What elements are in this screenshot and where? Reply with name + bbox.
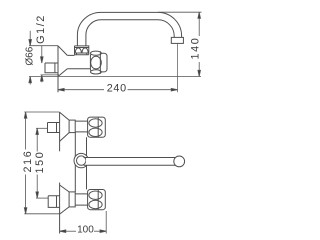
dimension Ø66: [29, 31, 58, 85]
spout end cap (plan): [174, 156, 185, 167]
nipple 2 (plan): [48, 196, 59, 208]
knob 2 (plan): [88, 190, 106, 210]
spout swivel rings (plan): [74, 153, 88, 167]
dimension 140: [158, 12, 202, 76]
dimension G1/2: [41, 46, 60, 82]
body tube between valves (plan): [75, 133, 86, 192]
dimension 100: [60, 211, 107, 234]
connector 1 (plan): [75, 121, 87, 132]
flange 1 cone (plan): [60, 112, 70, 141]
G1/2 wall nipple (side view): [45, 63, 58, 73]
spout union nut (side view): [75, 46, 89, 55]
nipple 1 (plan): [48, 123, 60, 133]
wall line (plan): [59, 112, 61, 234]
bonnet 2 (plan): [69, 192, 75, 207]
connector 2 (plan): [75, 194, 87, 205]
svg-text:240: 240: [107, 83, 127, 95]
svg-text:100: 100: [77, 224, 94, 235]
dimension 216: [24, 112, 59, 214]
svg-text:150: 150: [34, 151, 46, 174]
dimension 150: [36, 128, 49, 198]
body barrel (side view): [67, 55, 90, 68]
axis / flange-bottom reference line: [29, 76, 201, 78]
spout tube (side view, up and over): [77, 12, 181, 46]
svg-text:216: 216: [22, 150, 34, 173]
handle knob (side view): [90, 51, 107, 74]
dimension 240: [58, 43, 178, 92]
spout nozzle (side view): [171, 37, 183, 43]
bonnet 1 (plan): [69, 120, 75, 133]
wall line: [57, 46, 59, 93]
flange cone (side view): [58, 46, 67, 77]
flange 2 cone (plan): [60, 185, 70, 214]
knob 1 (plan): [88, 117, 106, 137]
svg-text:Ø66: Ø66: [25, 46, 36, 65]
svg-text:G1/2: G1/2: [35, 14, 47, 44]
spout tube (plan): [86, 158, 176, 165]
svg-text:140: 140: [190, 37, 202, 60]
